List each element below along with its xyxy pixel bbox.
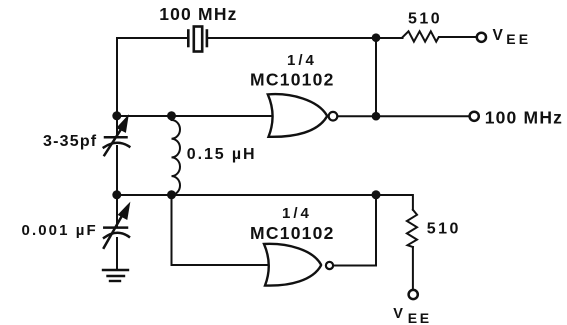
svg-text:MC10102: MC10102 xyxy=(250,70,335,90)
svg-text:EE: EE xyxy=(408,310,432,325)
svg-text:100 MHz: 100 MHz xyxy=(485,108,563,128)
svg-text:V: V xyxy=(493,27,504,44)
svg-text:100 MHz: 100 MHz xyxy=(159,4,237,24)
svg-text:1/4: 1/4 xyxy=(282,205,312,222)
svg-text:510: 510 xyxy=(408,11,442,28)
svg-text:3-35pf: 3-35pf xyxy=(43,133,97,150)
svg-text:0.001 µF: 0.001 µF xyxy=(22,222,98,239)
svg-text:EE: EE xyxy=(506,31,531,47)
svg-text:V: V xyxy=(393,306,403,322)
svg-text:1/4: 1/4 xyxy=(287,52,317,69)
svg-text:MC10102: MC10102 xyxy=(250,223,335,243)
svg-text:510: 510 xyxy=(427,220,461,237)
svg-text:0.15 µH: 0.15 µH xyxy=(187,146,257,163)
